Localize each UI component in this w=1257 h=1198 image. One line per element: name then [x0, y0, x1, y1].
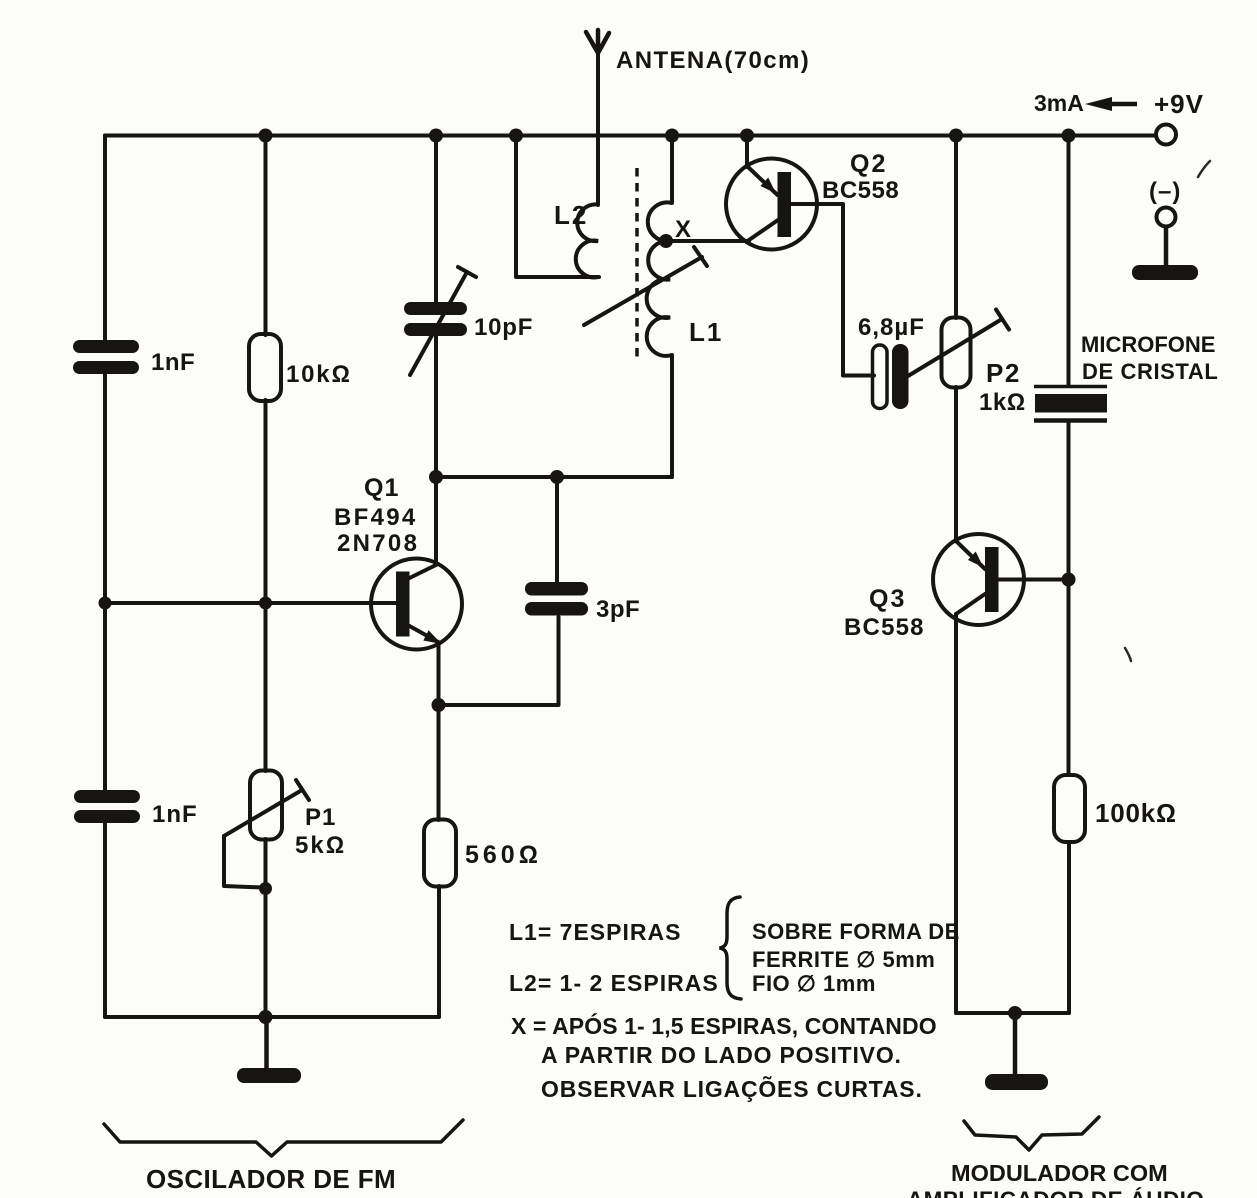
coil L1	[647, 202, 672, 356]
svg-text:X: X	[675, 216, 691, 243]
wire left vertical (C1 to C2)	[103, 372, 107, 791]
wire Q2 emitter from rail	[745, 136, 749, 168]
svg-text:3mA: 3mA	[1034, 90, 1084, 116]
resistor 100k	[1054, 775, 1085, 842]
wire X tap to Q2 collector	[666, 239, 749, 243]
resistor 560 ohm	[424, 820, 456, 887]
svg-text:OSCILADOR DE FM: OSCILADOR DE FM	[146, 1164, 396, 1194]
svg-text:10pF: 10pF	[474, 314, 533, 341]
svg-text:560Ω: 560Ω	[465, 841, 542, 869]
wire Q1 emitter column	[437, 644, 441, 820]
wire Q3 base to right column	[998, 578, 1069, 582]
wire right column (rail to mic)	[1067, 136, 1071, 386]
brace oscillator section	[104, 1120, 463, 1156]
wire collector row y477	[436, 475, 672, 479]
svg-text:AMPLIFICADOR DE ÁUDIO: AMPLIFICADOR DE ÁUDIO	[907, 1187, 1204, 1198]
wire L1 column top	[670, 136, 674, 204]
svg-text:DE CRISTAL: DE CRISTAL	[1082, 359, 1218, 384]
svg-text:Q2: Q2	[850, 150, 887, 178]
svg-text:L2: L2	[554, 200, 588, 230]
wire 10pF column from rail	[434, 136, 438, 304]
crystal microphone	[1034, 387, 1107, 421]
wire left vertical (rail to C1)	[103, 136, 107, 342]
ground (modulator)	[985, 1074, 1048, 1090]
trimmer 10pF arrow	[410, 267, 476, 375]
wire ground stem (modulator)	[1013, 1013, 1018, 1074]
wire L1 column bottom	[670, 355, 674, 477]
wire bottom ground rail (oscillator)	[105, 1015, 439, 1019]
wire right column (mic to 100k)	[1067, 423, 1071, 776]
wire (-) terminal to ground	[1164, 227, 1169, 266]
svg-text:1nF: 1nF	[152, 801, 198, 828]
svg-text:2N708: 2N708	[337, 530, 419, 557]
svg-text:OBSERVAR LIGAÇÕES CURTAS.: OBSERVAR LIGAÇÕES CURTAS.	[541, 1075, 923, 1102]
wire 10pF to Q1 collector	[434, 335, 438, 564]
wire 100k to bottom rail	[1067, 842, 1071, 1013]
transistor Q3	[933, 534, 1024, 625]
svg-text:100kΩ: 100kΩ	[1095, 798, 1177, 828]
capacitor C1 1nF (top)	[73, 340, 139, 374]
svg-text:L2= 1- 2 ESPIRAS: L2= 1- 2 ESPIRAS	[509, 970, 719, 996]
svg-text:+9V: +9V	[1154, 89, 1204, 119]
svg-text:L1: L1	[689, 317, 723, 347]
wire P2 column from rail	[954, 136, 958, 319]
wire Q1 base row	[105, 601, 397, 605]
wire P2 to Q3 emitter	[954, 387, 958, 541]
wire P1 bottom column	[264, 839, 268, 1017]
svg-text:BC558: BC558	[844, 614, 925, 641]
coupling dashed line L1/L2	[635, 168, 639, 358]
coil L2	[576, 204, 598, 277]
svg-text:A PARTIR DO LADO POSITIVO.: A PARTIR DO LADO POSITIVO.	[541, 1042, 902, 1068]
wire Q3 collector down	[954, 614, 958, 1013]
svg-text:1kΩ: 1kΩ	[979, 389, 1026, 416]
wire Q1 emitter row to 3pF bottom	[439, 617, 559, 705]
wire Q2 base to C 6.8uF	[791, 204, 874, 376]
svg-text:(–): (–)	[1149, 178, 1181, 205]
electrolytic capacitor 6.8uF	[873, 344, 909, 409]
wire antenna mast	[596, 31, 600, 205]
terminal +9V	[1156, 125, 1176, 145]
svg-text:MICROFONE: MICROFONE	[1081, 332, 1215, 357]
potentiometer P1	[224, 771, 309, 888]
brace notes block	[720, 897, 742, 999]
brace modulator section	[964, 1117, 1099, 1150]
svg-text:FERRITE ∅ 5mm: FERRITE ∅ 5mm	[752, 947, 935, 972]
svg-text:P2: P2	[986, 358, 1021, 388]
svg-text:Q1: Q1	[364, 474, 399, 502]
wire L2 return to rail	[516, 136, 599, 278]
wire top +9V rail	[105, 134, 1156, 138]
stray scan mark near +9V	[1198, 161, 1210, 177]
svg-text:X = APÓS 1- 1,5 ESPIRAS, CONTA: X = APÓS 1- 1,5 ESPIRAS, CONTANDO	[511, 1012, 937, 1039]
svg-text:FIO ∅ 1mm: FIO ∅ 1mm	[752, 971, 876, 996]
capacitor C2 1nF (bottom)	[74, 790, 140, 823]
transistor Q2	[726, 159, 817, 250]
svg-text:ANTENA(70cm): ANTENA(70cm)	[616, 47, 810, 74]
wire 10k column (rail to R 10k)	[264, 136, 268, 336]
wire 3pF top column	[555, 477, 559, 582]
antenna	[586, 30, 609, 53]
ground (battery minus)	[1132, 265, 1198, 280]
terminal (-)	[1157, 208, 1176, 227]
L1 adjust arrow	[584, 247, 707, 325]
3mA arrow	[1085, 97, 1137, 111]
svg-text:5kΩ: 5kΩ	[295, 832, 346, 859]
capacitor 3pF	[525, 582, 588, 616]
svg-text:P1: P1	[305, 804, 336, 831]
resistor 10k	[249, 334, 281, 401]
svg-text:MODULADOR COM: MODULADOR COM	[951, 1160, 1168, 1186]
svg-text:10kΩ: 10kΩ	[286, 361, 352, 388]
svg-text:BF494: BF494	[334, 504, 418, 531]
trimmer capacitor 10pF	[404, 302, 467, 336]
svg-text:3pF: 3pF	[596, 596, 640, 623]
wire 560 ohm to bottom rail	[437, 886, 441, 1017]
svg-text:SOBRE FORMA DE: SOBRE FORMA DE	[752, 919, 960, 944]
ground (oscillator)	[237, 1068, 301, 1083]
svg-text:L1= 7ESPIRAS: L1= 7ESPIRAS	[509, 919, 681, 945]
wire 10k to base row to P1	[264, 400, 268, 771]
potentiometer P2	[908, 310, 1009, 388]
transistor Q1	[371, 559, 462, 650]
svg-text:6,8µF: 6,8µF	[858, 314, 925, 341]
wire left vertical (C2 to bottom rail)	[103, 822, 107, 1017]
wire bottom ground rail (modulator)	[956, 1011, 1069, 1015]
svg-text:Q3: Q3	[869, 585, 906, 613]
svg-text:BC558: BC558	[822, 177, 899, 204]
stray scan mark right of Q3	[1125, 648, 1131, 661]
wire ground stem (oscillator)	[264, 1017, 269, 1068]
svg-text:1nF: 1nF	[151, 349, 195, 376]
